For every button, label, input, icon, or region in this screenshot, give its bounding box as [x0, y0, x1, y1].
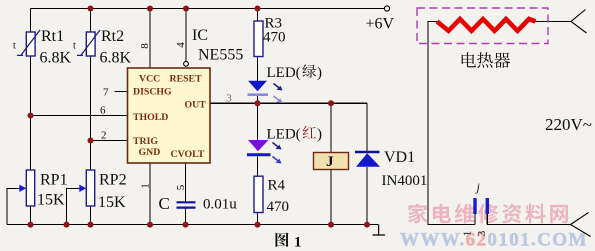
wire heater right lead	[536, 21, 572, 23]
svg-text:1: 1	[462, 231, 474, 237]
LED green D1	[248, 81, 283, 103]
svg-text:j: j	[475, 180, 481, 194]
junction RP2 wiper bracket / ground rail	[64, 222, 70, 228]
wire heater left lead down to contact	[428, 22, 475, 225]
wire pin7 DISCHG stub	[115, 91, 128, 93]
wire pin2 TRIG	[91, 140, 128, 142]
junction capacitor C / ground rail	[183, 222, 189, 228]
resistor R3	[254, 21, 263, 57]
svg-text:C: C	[159, 194, 170, 213]
svg-text:2: 2	[101, 130, 107, 142]
svg-text:RP2: RP2	[99, 172, 127, 189]
terminal fork 220V bottom right	[571, 212, 591, 236]
potentiometer RP1	[19, 170, 67, 209]
svg-text:220V~: 220V~	[545, 115, 592, 134]
heater element zigzag	[437, 19, 536, 31]
svg-text:6.8K: 6.8K	[40, 50, 72, 67]
svg-text:OUT: OUT	[185, 100, 207, 111]
LED red D2	[247, 140, 282, 164]
svg-text:15K: 15K	[98, 194, 126, 211]
junction relay J / OUT wire	[328, 100, 334, 106]
diode VD1 IN4001	[355, 149, 427, 189]
svg-text:3: 3	[226, 93, 232, 105]
wire bottom ground rail	[7, 224, 379, 226]
thermistor Rt1	[13, 28, 72, 67]
wire RP2 wiper bracket	[67, 188, 80, 224]
svg-text:Rt2: Rt2	[101, 28, 124, 45]
svg-text:IN4001: IN4001	[382, 173, 428, 189]
svg-text:7: 7	[103, 87, 109, 99]
svg-text:DISCHG: DISCHG	[133, 87, 172, 98]
svg-text:4: 4	[175, 42, 187, 48]
svg-text:VCC: VCC	[139, 74, 160, 85]
wire RP1 wiper bracket	[7, 188, 20, 224]
junction R4 / ground rail	[255, 222, 261, 228]
svg-text:15K: 15K	[37, 192, 65, 209]
svg-text:GND: GND	[139, 147, 161, 158]
IC U1 NE555 box	[128, 68, 211, 163]
wire OUT pin 3	[210, 102, 367, 104]
svg-text:R4: R4	[268, 178, 286, 194]
wire relay J column	[330, 103, 332, 224]
svg-text:LED(: LED(	[267, 65, 301, 81]
reset pin bubble	[184, 61, 189, 66]
wire contact j leads	[475, 214, 487, 225]
svg-text:TRIG: TRIG	[133, 136, 158, 147]
svg-text:RESET: RESET	[170, 74, 203, 85]
svg-text:+6V: +6V	[366, 16, 395, 33]
wire pin5 CVOLT to capacitor	[185, 163, 187, 225]
svg-text:1: 1	[140, 183, 152, 189]
junction pin1 GND / ground rail	[147, 222, 153, 228]
relay coil J	[314, 153, 349, 171]
svg-text:t: t	[13, 41, 16, 52]
wire pin6 THOLD	[31, 115, 128, 117]
watermark pink CJK	[408, 203, 428, 223]
svg-text:1: 1	[294, 235, 302, 251]
svg-text:8: 8	[139, 43, 151, 49]
wire VD1 column	[366, 103, 368, 224]
junction Rt2 / +6V rail	[88, 6, 94, 12]
svg-text:VD1: VD1	[384, 149, 415, 166]
wire R3/LED/R4 column	[257, 9, 259, 225]
junction LEDs / OUT wire	[255, 100, 261, 106]
svg-text:3: 3	[476, 230, 488, 236]
caption 图1	[276, 233, 289, 247]
capacitor C 0.01u	[159, 194, 238, 213]
svg-text:t: t	[73, 41, 76, 52]
svg-text:): )	[317, 127, 322, 143]
svg-text:470: 470	[263, 30, 286, 46]
junction RP1 / ground rail	[28, 222, 34, 228]
junction node TRIG (Rt2/RP2/pin2)	[88, 138, 94, 144]
wire pin4 RESET	[185, 9, 187, 62]
relay contact j	[462, 180, 490, 236]
svg-text:Rt1: Rt1	[41, 28, 64, 45]
svg-text:WWW.620101.COM: WWW.620101.COM	[400, 230, 588, 251]
junction node THOLD (Rt1/RP1/pin6)	[28, 113, 34, 119]
svg-text:NE555: NE555	[198, 47, 243, 64]
svg-text:470: 470	[267, 199, 290, 215]
svg-text:J: J	[326, 154, 334, 170]
wire Rt2/RP2 column	[90, 9, 92, 225]
svg-text:LED(: LED(	[267, 127, 301, 143]
junction RP2 / ground rail	[88, 222, 94, 228]
wire contact to 220V terminal	[487, 224, 570, 226]
potentiometer RP2	[79, 170, 126, 211]
wire left column (Rt1/RP1)	[30, 9, 32, 225]
svg-text:THOLD: THOLD	[133, 112, 168, 123]
svg-text:0.01u: 0.01u	[203, 197, 237, 213]
label heater 电热器	[462, 52, 476, 67]
thermistor Rt2	[73, 28, 132, 67]
svg-text:6.8K: 6.8K	[100, 50, 132, 67]
wire pin8 VCC	[149, 9, 151, 69]
terminal circle +6V	[384, 6, 389, 11]
pin number labels	[100, 42, 232, 191]
junction R3 / +6V rail	[255, 6, 261, 12]
svg-text:RP1: RP1	[40, 172, 68, 189]
heater dashed enclosure	[417, 8, 548, 44]
junction pin4 / +6V rail	[183, 6, 189, 12]
junction relay J / ground rail	[328, 222, 334, 228]
junction pin8 / +6V rail	[147, 6, 153, 12]
wire pin1 GND	[149, 163, 151, 225]
svg-text:6: 6	[100, 105, 106, 117]
svg-text:CVOLT: CVOLT	[171, 149, 205, 160]
ground symbol	[373, 225, 385, 235]
terminal fork 220V top right	[571, 10, 587, 34]
svg-text:IC: IC	[192, 27, 208, 44]
resistor R4	[254, 176, 263, 212]
wire top +6V rail	[31, 8, 385, 10]
svg-text:): )	[317, 65, 322, 81]
svg-text:5: 5	[175, 184, 187, 190]
junction VD1 / ground rail	[364, 222, 370, 228]
